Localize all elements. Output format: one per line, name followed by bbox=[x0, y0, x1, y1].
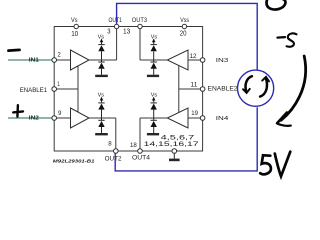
svg-text:Vs: Vs bbox=[98, 93, 104, 99]
svg-text:2: 2 bbox=[58, 51, 61, 58]
svg-text:11: 11 bbox=[191, 82, 198, 89]
svg-text:4,5,6,7: 4,5,6,7 bbox=[161, 136, 196, 142]
chip box outline U1 bbox=[54, 27, 202, 152]
wire pin2 to buffer A1 input bbox=[56, 59, 70, 61]
wire buffer A3 output to pin12 bbox=[188, 59, 200, 61]
buffer A2 bbox=[71, 108, 90, 128]
svg-text:M92L29301-B1: M92L29301-B1 bbox=[53, 159, 95, 165]
diode clamp chain bottom-left bbox=[95, 97, 108, 134]
ground pin symbol on bottom rail bbox=[169, 153, 180, 160]
svg-text:OUT2: OUT2 bbox=[105, 155, 123, 162]
svg-text:9: 9 bbox=[58, 110, 62, 117]
motor M1 circle bbox=[238, 70, 274, 106]
pin circle 18 OUT4 bbox=[138, 149, 143, 154]
wire ENABLE1 horizontal bbox=[56, 88, 78, 90]
wire ENABLE2 horizontal bbox=[179, 88, 201, 90]
svg-text:Vs: Vs bbox=[98, 34, 104, 40]
svg-text:IN1: IN1 bbox=[29, 58, 39, 64]
svg-text:20: 20 bbox=[180, 29, 187, 38]
svg-text:1: 1 bbox=[57, 81, 60, 88]
handwritten plus terminal bbox=[13, 105, 23, 116]
pin circle 2 bbox=[52, 58, 57, 63]
svg-text:Vs: Vs bbox=[151, 93, 157, 99]
wire buffer A4 output to pin19 bbox=[188, 117, 200, 119]
svg-text:OUT3: OUT3 bbox=[132, 17, 148, 24]
svg-text:OUT4: OUT4 bbox=[132, 154, 151, 161]
wire OUT2 vertical bbox=[115, 118, 117, 149]
wire OUT4 vertical bbox=[139, 118, 141, 149]
svg-text:3: 3 bbox=[107, 26, 110, 35]
IN2 wire bbox=[8, 117, 52, 119]
handwritten 5V annotation bbox=[260, 152, 290, 177]
svg-text:14,15,16,17: 14,15,16,17 bbox=[144, 142, 200, 148]
svg-text:Vs: Vs bbox=[151, 34, 157, 40]
svg-text:13: 13 bbox=[123, 26, 130, 35]
svg-text:IN3: IN3 bbox=[216, 58, 229, 64]
pin circle 20 Vss bbox=[182, 24, 186, 28]
svg-text:12: 12 bbox=[190, 53, 197, 60]
wire OUT4 row bbox=[140, 117, 167, 119]
wire pin9 to buffer A2 input bbox=[56, 117, 70, 119]
handwritten -s annotation bbox=[277, 33, 296, 46]
handwritten 8 top right bbox=[266, 0, 285, 10]
svg-text:8: 8 bbox=[108, 140, 112, 147]
svg-text:IN2: IN2 bbox=[29, 116, 39, 122]
handwritten long arrow to motor bbox=[277, 56, 306, 126]
buffer A1 bbox=[71, 50, 90, 70]
IN1 wire bbox=[8, 59, 52, 61]
pin circle 10 bbox=[52, 24, 205, 153]
svg-text:ENABLE2: ENABLE2 bbox=[208, 86, 238, 93]
wire OUT2 row bbox=[89, 117, 116, 119]
wire OUT1 row bbox=[89, 59, 117, 61]
pin circle 13 OUT3 bbox=[138, 24, 142, 28]
pin circle 12 bbox=[200, 58, 205, 63]
buffer A3 bbox=[167, 50, 188, 70]
pin circle 8 OUT2 bbox=[114, 149, 119, 154]
diode clamp chain top-right bbox=[147, 39, 159, 76]
wire OUT3 vertical bbox=[139, 29, 141, 60]
svg-text:OUT1: OUT1 bbox=[109, 17, 123, 24]
wire OUT1 vertical bbox=[116, 29, 118, 60]
pin circle 11 bbox=[200, 87, 205, 92]
pin circle 3 OUT1 bbox=[114, 24, 118, 28]
svg-text:IN4: IN4 bbox=[216, 116, 229, 122]
svg-text:18: 18 bbox=[130, 142, 137, 149]
pin circle ground bbox=[172, 149, 177, 154]
wire OUT3 row bbox=[140, 59, 167, 61]
wire ENABLE1 vertical bbox=[77, 66, 79, 112]
pin circle 19 bbox=[200, 116, 205, 121]
svg-text:Vs: Vs bbox=[71, 17, 78, 24]
diode clamp chain bottom-right bbox=[147, 97, 159, 134]
handwritten rotation arrow left inside motor bbox=[243, 76, 252, 93]
svg-text:19: 19 bbox=[191, 110, 198, 117]
svg-text:10: 10 bbox=[71, 29, 78, 38]
handwritten rotation arrow right inside motor bbox=[260, 77, 269, 97]
pin circle 1 bbox=[52, 87, 57, 92]
blue motor supply wire top bbox=[115, 3, 257, 171]
svg-text:Vss: Vss bbox=[180, 17, 189, 24]
diode clamp chain top-left bbox=[95, 39, 108, 76]
handwritten minus terminal bbox=[9, 49, 20, 52]
pin circle 9 bbox=[52, 116, 57, 121]
blue motor supply wire bottom bbox=[115, 107, 257, 171]
buffer A4 bbox=[167, 108, 188, 128]
svg-text:ENABLE1: ENABLE1 bbox=[20, 87, 48, 94]
wire ENABLE2 vertical bbox=[178, 66, 180, 113]
